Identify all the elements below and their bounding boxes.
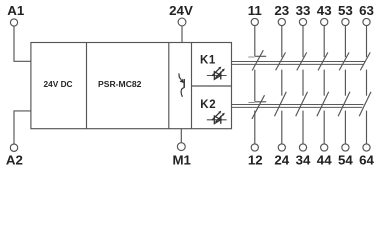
svg-text:34: 34 — [296, 153, 311, 168]
svg-text:64: 64 — [359, 153, 374, 168]
svg-text:K1: K1 — [200, 54, 216, 66]
svg-text:23: 23 — [274, 3, 289, 18]
svg-text:24: 24 — [274, 153, 289, 168]
svg-text:12: 12 — [248, 153, 263, 168]
svg-text:K2: K2 — [200, 99, 216, 111]
svg-text:53: 53 — [338, 3, 353, 18]
svg-text:11: 11 — [248, 3, 263, 18]
svg-text:PSR-MC82: PSR-MC82 — [98, 79, 142, 89]
svg-text:A2: A2 — [6, 153, 23, 168]
svg-text:M1: M1 — [172, 153, 191, 168]
svg-text:33: 33 — [296, 3, 311, 18]
svg-text:A1: A1 — [7, 3, 25, 18]
svg-text:24V: 24V — [169, 3, 193, 18]
svg-text:43: 43 — [317, 3, 332, 18]
svg-text:54: 54 — [338, 153, 353, 168]
svg-text:63: 63 — [359, 3, 374, 18]
svg-text:24V DC: 24V DC — [44, 79, 73, 89]
svg-text:44: 44 — [317, 153, 332, 168]
